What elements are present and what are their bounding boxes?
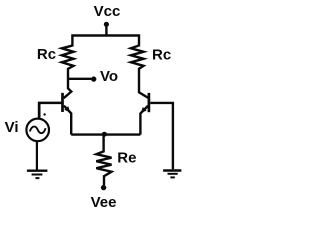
- svg-text:Rc: Rc: [152, 46, 171, 63]
- svg-text:Vi: Vi: [5, 119, 19, 136]
- svg-text:Vee: Vee: [91, 194, 117, 211]
- svg-text:Re: Re: [117, 149, 136, 166]
- svg-text:Vcc: Vcc: [94, 3, 121, 20]
- svg-text:Rc: Rc: [37, 46, 56, 63]
- svg-text:Vo: Vo: [100, 68, 118, 85]
